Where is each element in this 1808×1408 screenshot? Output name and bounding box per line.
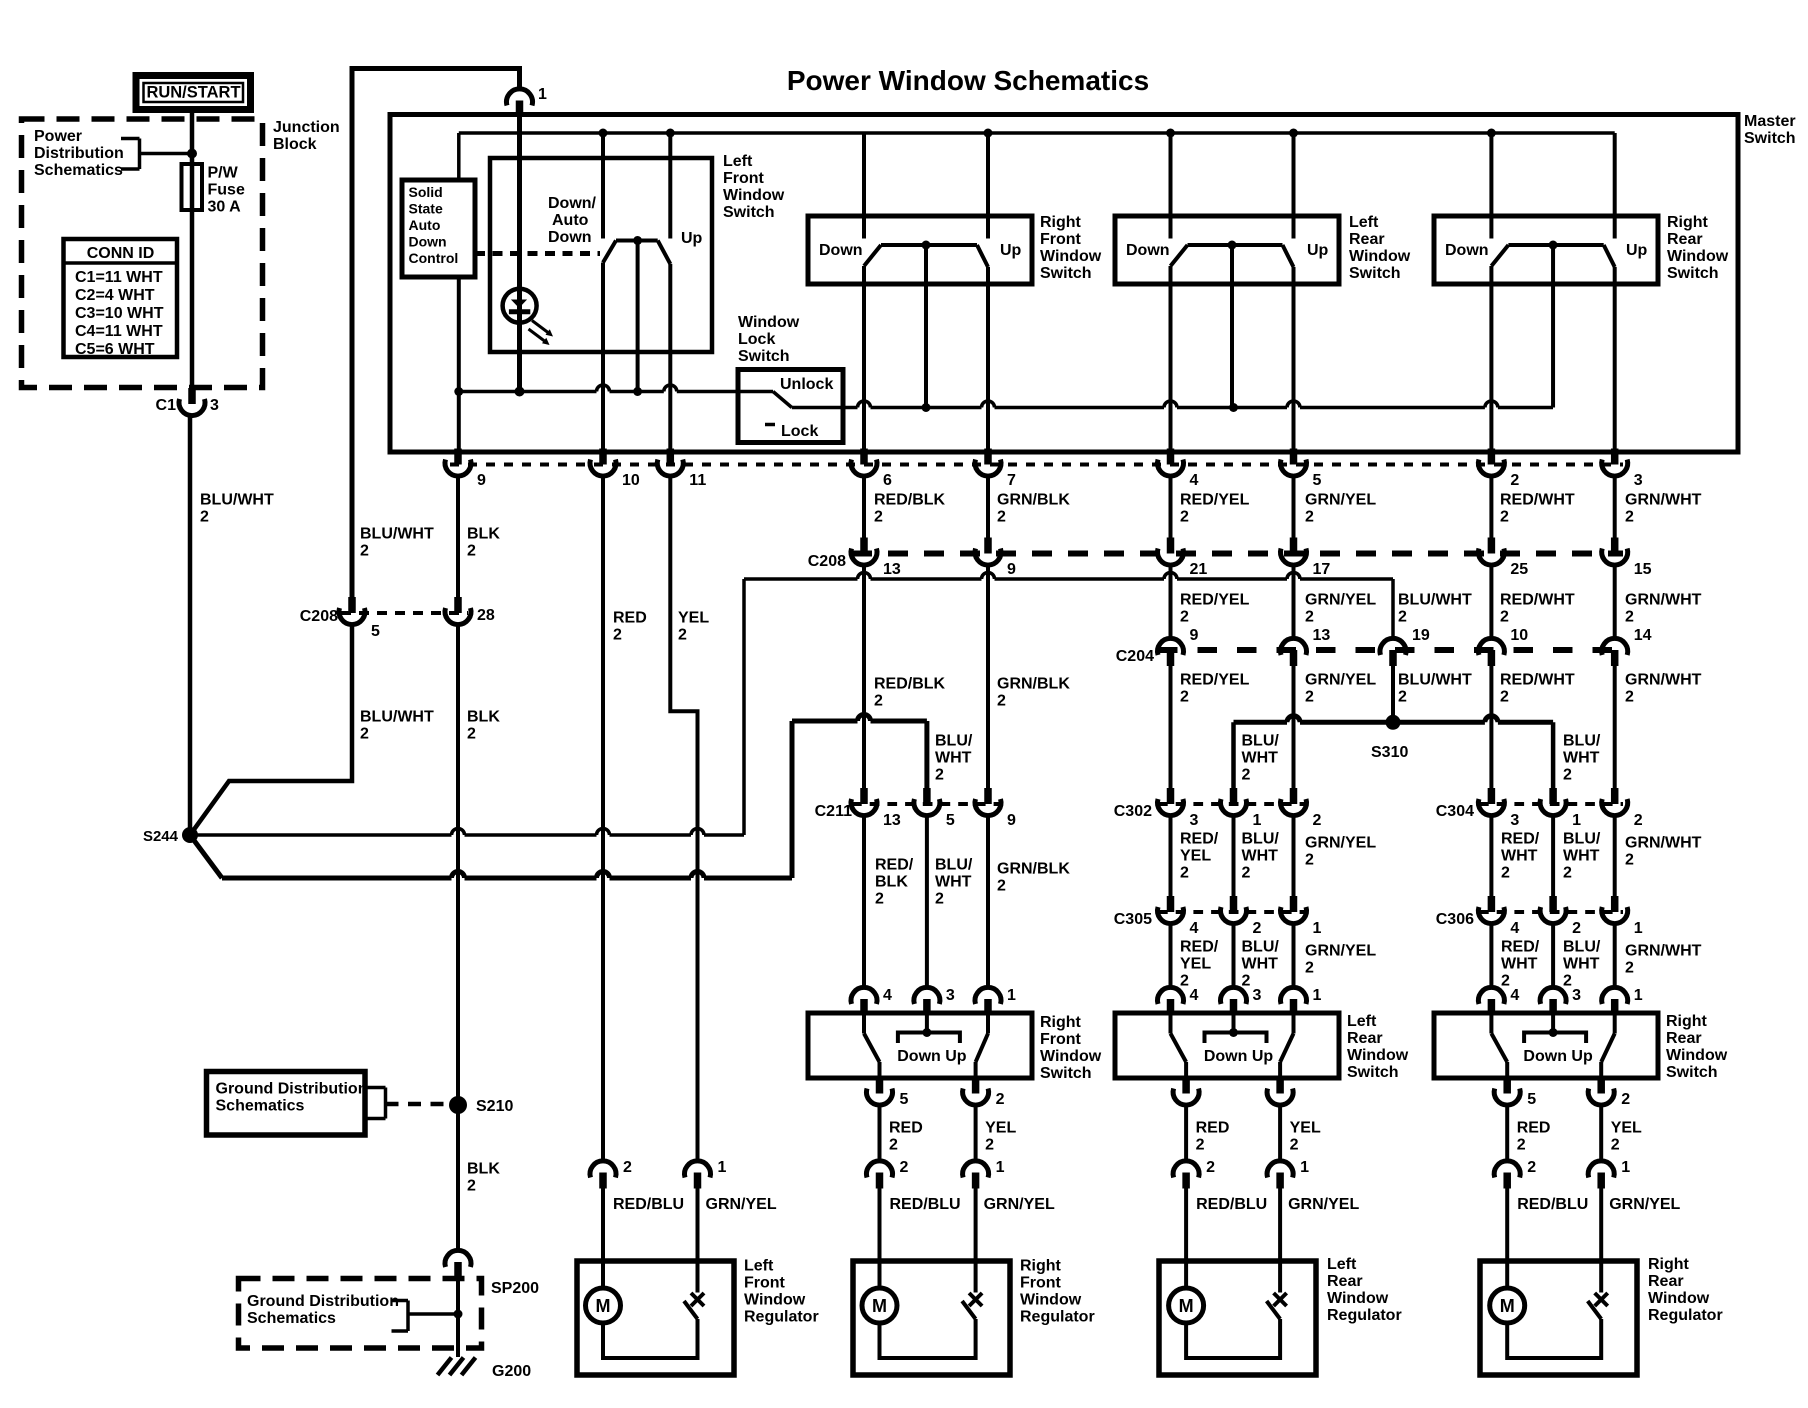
connector row C211 dashed line — [852, 802, 999, 806]
label left front window regulator — [744, 1258, 819, 1326]
window lock switch contact blade — [738, 376, 843, 440]
wire label RED/WHT 2 below C304-3 — [1501, 831, 1540, 882]
connector C302 pin 1 — [1221, 788, 1247, 816]
svg-text:WHT: WHT — [1563, 848, 1600, 865]
svg-text:2: 2 — [1563, 865, 1572, 882]
svg-text:2: 2 — [1196, 1137, 1205, 1154]
wire: master internal top supply bus — [459, 131, 1615, 135]
svg-text:2: 2 — [935, 891, 944, 908]
wire: C204-13 to C302-2 — [1292, 665, 1296, 790]
svg-text:M: M — [1500, 1296, 1515, 1316]
svg-text:WHT: WHT — [1501, 848, 1538, 865]
wire: left front switch common to lock bus — [636, 241, 640, 392]
wire label BLK 2 above C208-28 — [467, 526, 500, 560]
svg-text:Window: Window — [738, 314, 800, 331]
svg-text:15: 15 — [1634, 561, 1652, 578]
svg-text:Master: Master — [1744, 113, 1796, 130]
wire: RUN/START down to fuse — [190, 110, 195, 165]
wire: right front window switch up side to pin — [986, 267, 990, 451]
svg-text:RED/: RED/ — [1180, 939, 1219, 956]
svg-text:2: 2 — [360, 726, 369, 743]
wire: C204-14 to C304-2 — [1613, 665, 1617, 790]
wire: C304-3 to C306-4 — [1489, 816, 1493, 898]
wire: right rear window switch up side to pin — [1613, 267, 1617, 451]
svg-text:P/W: P/W — [208, 165, 239, 182]
svg-text:4: 4 — [1190, 920, 1199, 937]
svg-text:Up: Up — [681, 230, 703, 247]
wire: BLU/WHT from C208-5 down and over to S244 — [190, 625, 352, 835]
connector row C302 dashed line — [1158, 802, 1305, 806]
connector right rear window switch (door) output pin 2 — [1588, 1078, 1614, 1106]
wire label BLU/WHT 2 — [200, 492, 274, 526]
wire label BLU/WHT 2 below C211-5 — [935, 857, 973, 908]
right front window regulator internal limit switch — [962, 1293, 982, 1319]
svg-text:Window: Window — [1327, 1290, 1389, 1307]
svg-text:CONN ID: CONN ID — [87, 245, 155, 262]
svg-text:9: 9 — [477, 472, 486, 489]
right rear window switch (door) down blade — [1491, 1013, 1507, 1078]
wire label BLU/WHT 2 at C204-19 — [1398, 592, 1472, 626]
svg-text:2: 2 — [1625, 960, 1634, 977]
connector row C208 dashed line (pins 5/28) — [341, 611, 468, 615]
connector row C204 dashed line — [1158, 647, 1623, 653]
svg-text:28: 28 — [477, 607, 495, 624]
svg-text:Right: Right — [1020, 1258, 1062, 1275]
svg-text:2: 2 — [200, 509, 209, 526]
wire: right front window switch down side to pin — [862, 266, 866, 451]
svg-text:Left: Left — [1327, 1256, 1357, 1273]
svg-text:1: 1 — [1621, 1159, 1630, 1176]
svg-text:YEL: YEL — [985, 1120, 1016, 1137]
svg-text:1: 1 — [1634, 987, 1643, 1004]
wire label BLU/WHT 2 above C208-5 — [360, 526, 434, 560]
wire: C208-13 to C211-13 — [862, 566, 866, 791]
svg-text:S310: S310 — [1371, 744, 1408, 761]
svg-text:2: 2 — [360, 543, 369, 560]
junction dots on lock bus right segment — [922, 403, 1239, 412]
wire: C302-3 to C305-4 — [1169, 816, 1173, 898]
svg-text:Up: Up — [1307, 242, 1329, 259]
wire: C211-13 to right front switch pin 4 — [862, 816, 866, 989]
svg-text:4: 4 — [883, 987, 892, 1004]
connector left front window regulator pin 1 — [685, 1161, 711, 1189]
svg-text:1: 1 — [1300, 1159, 1309, 1176]
wire: C306-1 to right rear switch pin 1 — [1613, 924, 1617, 989]
svg-text:BLU/: BLU/ — [1242, 831, 1280, 848]
svg-text:RED/WHT: RED/WHT — [1500, 592, 1575, 609]
connector C208 pin 28 — [445, 597, 471, 625]
wire label RED/WHT 2 below C204-10 — [1500, 672, 1575, 706]
wire: left rear window regulator internal return — [1186, 1319, 1280, 1358]
label left rear window switch — [1349, 214, 1411, 282]
connector C211 pin 9 — [975, 788, 1001, 816]
svg-text:Switch: Switch — [1349, 265, 1401, 282]
connector left front window regulator pin 2 — [590, 1161, 616, 1189]
wire: C305-1 to left rear switch pin 1 — [1292, 924, 1296, 989]
svg-text:2: 2 — [997, 509, 1006, 526]
svg-text:Schematics: Schematics — [34, 162, 123, 179]
wire: C304-2 to C306-1 — [1613, 816, 1617, 898]
svg-text:2: 2 — [1634, 812, 1643, 829]
svg-text:RED/BLU: RED/BLU — [1517, 1196, 1588, 1213]
connector C208 pin 17 — [1281, 538, 1307, 566]
svg-text:BLK: BLK — [467, 709, 500, 726]
svg-text:2: 2 — [1501, 973, 1510, 990]
wire label BLK 2 below C208-28 — [467, 709, 500, 743]
svg-text:Front: Front — [1040, 231, 1082, 248]
svg-text:9: 9 — [1190, 627, 1199, 644]
wire: C204-9 to C302-3 — [1169, 665, 1173, 790]
wire: BLK from C208-28 to splice S210 — [456, 625, 460, 1105]
label right rear window regulator — [1648, 1256, 1723, 1324]
svg-text:Regulator: Regulator — [1020, 1309, 1095, 1326]
connector right rear window switch (door) pin 4 — [1478, 987, 1504, 1015]
svg-text:2: 2 — [1253, 920, 1262, 937]
wire label BLU/WHT 2 below C208-5 — [360, 709, 434, 743]
wire label RED/BLK 2 below C208-13 — [874, 676, 946, 710]
wire: pin 3 to C208-15 — [1613, 477, 1617, 540]
wire: GRN/YEL to left front window regulator — [696, 1188, 700, 1293]
svg-text:Switch: Switch — [723, 204, 775, 221]
svg-text:2: 2 — [996, 1091, 1005, 1108]
svg-text:1: 1 — [1313, 987, 1322, 1004]
right front window switch (door) up blade — [976, 1013, 988, 1078]
svg-text:2: 2 — [1305, 960, 1314, 977]
svg-text:13: 13 — [883, 561, 901, 578]
svg-text:BLU/WHT: BLU/WHT — [1398, 592, 1472, 609]
svg-text:Window: Window — [1648, 1290, 1710, 1307]
svg-text:2: 2 — [935, 767, 944, 784]
svg-text:1: 1 — [1007, 987, 1016, 1004]
wire label RED 2 (right rear window switch (door)) — [1517, 1120, 1551, 1154]
wire: C304-1 to C306-2 — [1551, 816, 1555, 898]
svg-text:2: 2 — [1625, 609, 1634, 626]
wire label RED/BLK 2 below C211-13 — [875, 857, 914, 908]
right rear window switch box — [1434, 216, 1658, 284]
svg-text:2: 2 — [1313, 812, 1322, 829]
left rear window switch contacts — [1171, 133, 1294, 267]
svg-text:2: 2 — [874, 509, 883, 526]
svg-text:Down/: Down/ — [548, 195, 597, 212]
wire label GRN/WHT 2 below C208-15 — [1625, 592, 1702, 626]
connector C208 pin 13 — [851, 538, 877, 566]
svg-text:WHT: WHT — [935, 874, 972, 891]
svg-text:Down Up: Down Up — [1523, 1048, 1593, 1065]
left rear window switch box — [1115, 216, 1339, 284]
svg-text:Rear: Rear — [1667, 231, 1703, 248]
svg-text:BLK: BLK — [467, 526, 500, 543]
wire label RED/WHT 2 below C208-25 — [1500, 592, 1575, 626]
wire: C208-21 to C204-9 — [1169, 566, 1173, 640]
wire: up side to pin 11 — [668, 264, 672, 451]
svg-text:Control: Control — [409, 250, 459, 266]
svg-text:Down: Down — [548, 229, 592, 246]
svg-text:1: 1 — [1313, 920, 1322, 937]
svg-text:Window: Window — [1667, 248, 1729, 265]
connector right front window switch (door) output pin 5 — [867, 1078, 893, 1106]
svg-text:SP200: SP200 — [491, 1280, 539, 1297]
junction dot at fuse feed — [187, 149, 197, 159]
connector left rear window switch (door) output pin 5 — [1173, 1078, 1199, 1106]
left front window switch box — [490, 158, 712, 352]
window lock switch box — [738, 370, 843, 443]
wire label BLU/WHT 2 below C302-1 — [1242, 831, 1280, 882]
svg-text:Rear: Rear — [1349, 231, 1385, 248]
svg-text:BLU/: BLU/ — [935, 857, 973, 874]
svg-text:5: 5 — [1313, 472, 1322, 489]
svg-text:2: 2 — [985, 1137, 994, 1154]
label P/W Fuse 30 A — [208, 165, 245, 216]
svg-text:C5=6 WHT: C5=6 WHT — [75, 341, 155, 358]
svg-text:GRN/YEL: GRN/YEL — [1305, 835, 1376, 852]
wire: C211-9 to right front switch pin 1 — [986, 816, 990, 989]
connector C204 pin 14 — [1602, 638, 1628, 666]
wire label RED/WHT 2 — [1500, 492, 1575, 526]
svg-text:G200: G200 — [492, 1363, 531, 1380]
wire label BLU/WHT 2 below C306-2 — [1563, 939, 1601, 990]
svg-text:YEL: YEL — [1180, 848, 1211, 865]
svg-text:S244: S244 — [143, 828, 179, 845]
wire label RED/YEL 2 below C302-3 — [1180, 831, 1219, 882]
svg-text:2: 2 — [1180, 865, 1189, 882]
connector C204 pin 10 — [1478, 638, 1504, 666]
svg-text:Window: Window — [723, 187, 785, 204]
svg-text:2: 2 — [1180, 973, 1189, 990]
label Ground Distribution Schematics (lower) — [247, 1293, 399, 1327]
wire: right rear window switch common to lock bus — [1551, 245, 1555, 408]
svg-text:BLK: BLK — [467, 1161, 500, 1178]
connector master switch pin 11 — [657, 449, 683, 477]
wire label RED/YEL 2 — [1180, 492, 1250, 526]
master switch boundary box — [390, 115, 1738, 453]
svg-text:Block: Block — [273, 136, 317, 153]
svg-text:BLU/WHT: BLU/WHT — [360, 709, 434, 726]
svg-text:RED/WHT: RED/WHT — [1500, 672, 1575, 689]
splice S210 — [449, 1096, 467, 1114]
svg-text:YEL: YEL — [1611, 1120, 1642, 1137]
svg-text:2: 2 — [1563, 767, 1572, 784]
label right rear window switch (door) — [1666, 1013, 1728, 1081]
wire label YEL 2 — [678, 610, 709, 644]
wire: pin 10 RED down to regulator connector — [601, 477, 605, 1162]
wire: GRN/YEL to left rear window regulator — [1278, 1188, 1282, 1293]
svg-text:2: 2 — [1180, 609, 1189, 626]
wire: left front window regulator internal return — [603, 1319, 698, 1358]
wire: SP200 to ground G200 — [456, 1277, 460, 1357]
svg-text:Power: Power — [34, 128, 82, 145]
svg-text:Rear: Rear — [1648, 1273, 1684, 1290]
svg-text:Up: Up — [1000, 242, 1022, 259]
right rear window switch (door) box — [1434, 1013, 1658, 1078]
svg-text:BLU/WHT: BLU/WHT — [200, 492, 274, 509]
wire: heavy feed from connector 1 through LED to lock bus — [517, 115, 522, 392]
svg-text:Switch: Switch — [1347, 1064, 1399, 1081]
svg-text:C1: C1 — [156, 397, 177, 414]
svg-text:21: 21 — [1190, 561, 1208, 578]
svg-text:2: 2 — [1242, 973, 1251, 990]
svg-text:Ground Distribution: Ground Distribution — [247, 1293, 399, 1310]
svg-text:Rear: Rear — [1666, 1030, 1702, 1047]
svg-text:2: 2 — [1305, 609, 1314, 626]
svg-text:2: 2 — [874, 693, 883, 710]
svg-text:Power Window Schematics: Power Window Schematics — [787, 65, 1149, 96]
connector right front window regulator pin 1 — [963, 1161, 989, 1189]
indicator LED — [503, 289, 553, 345]
connector right front window switch (door) output pin 2 — [963, 1078, 989, 1106]
wire: lock bus right segment — [843, 401, 1553, 407]
svg-text:BLU/: BLU/ — [935, 733, 973, 750]
svg-text:RED/: RED/ — [875, 857, 914, 874]
left rear window regulator box — [1159, 1261, 1316, 1375]
svg-text:Window: Window — [1020, 1292, 1082, 1309]
svg-text:C304: C304 — [1436, 803, 1474, 820]
svg-text:Left: Left — [723, 153, 753, 170]
svg-text:Switch: Switch — [1040, 1065, 1092, 1082]
wire label BLU/WHT 2 below C305-2 — [1242, 939, 1280, 990]
connector C304 pin 1 — [1540, 788, 1566, 816]
wire: left rear window switch (door) YEL output — [1278, 1106, 1282, 1162]
wire label RED 2 (left rear window switch (door)) — [1196, 1120, 1230, 1154]
svg-text:2: 2 — [1563, 973, 1572, 990]
svg-text:WHT: WHT — [1563, 956, 1600, 973]
left rear window switch (door) up blade — [1280, 1013, 1293, 1078]
connector right front window switch (door) pin 3 — [914, 987, 940, 1015]
svg-text:2: 2 — [1180, 509, 1189, 526]
junction dot on left rear window switch bar — [1228, 241, 1237, 250]
connector C305 pin 4 — [1157, 896, 1183, 924]
wire: solid state module to lock bus and pin 9 — [457, 277, 461, 451]
svg-text:3: 3 — [210, 397, 219, 414]
svg-text:11: 11 — [689, 472, 706, 489]
wire: left rear window switch down side to pin — [1169, 266, 1173, 451]
svg-text:4: 4 — [1190, 987, 1199, 1004]
svg-text:2: 2 — [1305, 689, 1314, 706]
svg-text:2: 2 — [467, 726, 476, 743]
svg-text:10: 10 — [1510, 627, 1528, 644]
svg-text:RED/BLK: RED/BLK — [874, 676, 946, 693]
svg-text:BLU/: BLU/ — [1242, 939, 1280, 956]
left front window regulator box — [577, 1261, 734, 1375]
wire label GRN/BLK 2 below C208-9 — [997, 676, 1070, 710]
wire: RED/BLU to left rear window regulator — [1184, 1188, 1188, 1289]
label right front window switch — [1040, 214, 1102, 282]
wire: RED/BLU to right rear window regulator — [1505, 1188, 1509, 1289]
right front window switch (door) down blade — [864, 1013, 880, 1078]
svg-text:Auto: Auto — [409, 217, 441, 233]
right front window switch box — [808, 216, 1032, 284]
svg-text:C208: C208 — [808, 553, 846, 570]
svg-text:25: 25 — [1510, 561, 1528, 578]
svg-text:Window: Window — [1349, 248, 1411, 265]
svg-text:GRN/WHT: GRN/WHT — [1625, 943, 1702, 960]
svg-text:RED/: RED/ — [1501, 831, 1540, 848]
wire label YEL 2 (left rear window switch (door)) — [1290, 1120, 1321, 1154]
connector master switch pin 5 — [1281, 449, 1307, 477]
wire label RED/YEL 2 below C208-21 — [1180, 592, 1250, 626]
connector left rear window regulator pin 2 — [1173, 1161, 1199, 1189]
svg-text:2: 2 — [467, 543, 476, 560]
left rear window switch (door) down blade — [1171, 1013, 1187, 1078]
wire label BLU/WHT 2 below C304-1 — [1563, 831, 1601, 882]
svg-text:2: 2 — [997, 878, 1006, 895]
motor M (right front window regulator) — [862, 1288, 897, 1323]
svg-text:1: 1 — [996, 1159, 1005, 1176]
svg-text:1: 1 — [1572, 812, 1581, 829]
fuse P/W 30 A — [182, 164, 203, 210]
label left rear window switch (door) — [1347, 1013, 1409, 1081]
svg-text:C211: C211 — [815, 803, 852, 820]
wire label GRN/WHT 2 below C306-1 — [1625, 943, 1702, 977]
connector C204 pin 19 — [1380, 638, 1406, 666]
svg-text:RUN/START: RUN/START — [146, 84, 240, 102]
svg-text:Schematics: Schematics — [247, 1310, 336, 1327]
connector right front window switch (door) pin 1 — [975, 987, 1001, 1015]
connector C304 pin 3 — [1478, 788, 1504, 816]
wire label RED 2 — [613, 610, 647, 644]
wire: left rear window switch common to lock bus — [1230, 245, 1234, 408]
svg-text:GRN/YEL: GRN/YEL — [1305, 943, 1376, 960]
connector master switch pin 9 — [445, 449, 471, 477]
wire: GRN/YEL to right rear window regulator — [1599, 1188, 1603, 1293]
svg-text:Window: Window — [744, 1292, 806, 1309]
svg-text:2: 2 — [889, 1137, 898, 1154]
svg-text:2: 2 — [467, 1178, 476, 1195]
right rear window switch (door) common contact bar — [1524, 1013, 1586, 1043]
wire label GRN/YEL 2 below C208-17 — [1305, 592, 1376, 626]
svg-text:Switch: Switch — [1744, 130, 1796, 147]
wire label RED/BLK 2 — [874, 492, 946, 526]
junction dots on top bus — [599, 129, 1496, 138]
connector right rear window regulator pin 2 — [1494, 1161, 1520, 1189]
motor M (left rear window regulator) — [1169, 1288, 1204, 1323]
connector master switch pin 3 — [1602, 449, 1628, 477]
junction block dashed boundary — [22, 119, 263, 388]
wire: S244 thick branch to C211-5 — [190, 715, 927, 879]
connector C208 pin 15 — [1602, 538, 1628, 566]
connector C211 pin 5 — [914, 788, 940, 816]
svg-text:3: 3 — [1572, 987, 1581, 1004]
right rear window regulator box — [1480, 1261, 1637, 1375]
master switch connector row dashed line — [450, 463, 1623, 467]
splice S310 — [1386, 715, 1401, 730]
svg-text:RED: RED — [889, 1120, 923, 1137]
svg-text:2: 2 — [623, 1159, 632, 1176]
svg-text:9: 9 — [1007, 561, 1016, 578]
svg-text:5: 5 — [371, 623, 380, 640]
left front down/auto-down switch contacts — [603, 133, 670, 264]
wire label YEL 2 (right rear window switch (door)) — [1611, 1120, 1642, 1154]
label left rear window regulator — [1327, 1256, 1402, 1324]
junction dot on left front switch bar — [633, 236, 642, 245]
svg-text:BLU/WHT: BLU/WHT — [1398, 672, 1472, 689]
svg-text:Solid: Solid — [409, 184, 443, 200]
svg-text:2: 2 — [678, 627, 687, 644]
wire label RED/YEL 2 below C204-9 — [1180, 672, 1250, 706]
wire label YEL 2 (right front window switch (door)) — [985, 1120, 1016, 1154]
svg-text:2: 2 — [1242, 767, 1251, 784]
wire label GRN/BLK 2 below C211-9 — [997, 861, 1070, 895]
svg-text:M: M — [1179, 1296, 1194, 1316]
wire label GRN/BLK 2 — [997, 492, 1070, 526]
svg-text:RED/BLK: RED/BLK — [874, 492, 946, 509]
svg-text:RED/WHT: RED/WHT — [1500, 492, 1575, 509]
wire: RED/BLU to left front window regulator — [601, 1188, 605, 1289]
wire label GRN/WHT 2 below C204-14 — [1625, 672, 1702, 706]
wire label RED/WHT 2 below C306-4 — [1501, 939, 1540, 990]
svg-text:GRN/YEL: GRN/YEL — [1305, 492, 1376, 509]
ignition source RUN/START box — [136, 76, 251, 110]
svg-text:Auto: Auto — [552, 212, 589, 229]
